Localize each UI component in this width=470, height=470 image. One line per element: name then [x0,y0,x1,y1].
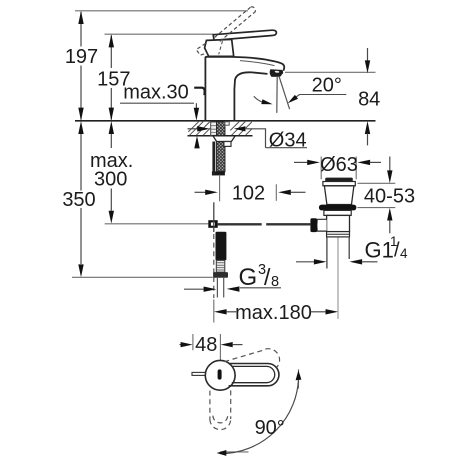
top view: faucet body circle [205,360,235,390]
pop-up rod vertical middle segment [213,202,215,232]
max.180 left arrow [214,309,227,314]
water stream 20 degree line [279,76,290,109]
faucet lever body / cartridge cap [205,39,234,56]
faucet body and spout outline [205,57,284,121]
svg-text:4: 4 [400,246,408,261]
counter section hatching right [230,122,252,136]
svg-text:84: 84 [358,88,380,110]
max.180 left extension line (faucet axis) [213,300,215,323]
dimension diameter 63 [294,161,308,163]
supply pipe below nut [217,278,223,298]
flexible supply hose [216,232,227,261]
dimension 350 [80,134,82,265]
mounting washer under counter [211,122,217,135]
drain body joint ring [327,232,350,237]
pop-up actuator rod (to drain) [218,223,311,225]
dimension max.30 arrows (counter thickness) [195,103,197,108]
drain flange body [324,186,354,205]
svg-text:Ø34: Ø34 [269,129,307,151]
top view: pop-up rod stub [192,372,208,375]
drain plug cap [325,178,353,182]
pop-up actuator rod horizontal (thin extension to max.300) [105,223,209,225]
top view: lever slot [218,369,222,379]
reference line: closed lever height [105,33,214,35]
90 degree arc ticks [298,369,300,388]
dimension max.300 [110,134,112,211]
top view: spout projection phantom (dashed) [210,390,231,429]
dimension 197 [80,12,82,120]
svg-text:48: 48 [195,334,217,356]
counter section hatching left [188,122,210,136]
raised lever (dashed phantom) [196,7,255,55]
drain collar under seal [324,210,351,215]
dimension 102 extension line at spout reach [275,184,277,201]
reference line: hose end (350 bottom) [72,276,213,278]
svg-text:90°: 90° [255,417,285,439]
pop-up rod upper segment [212,142,215,176]
pop-up rod joint [208,220,217,228]
top view: lever handle outer outline [229,364,279,386]
mounting nut [213,136,235,142]
pop-up rod guide box [224,142,231,147]
aerator at spout tip [270,69,283,77]
svg-text:300: 300 [94,168,127,190]
svg-text:102: 102 [232,183,265,205]
svg-text:350: 350 [62,189,95,211]
dimension 40-53 [389,157,391,171]
G3/8 left arrow [184,288,204,290]
threaded mounting shank [217,122,225,172]
svg-text:20°: 20° [312,75,342,97]
drain centerline [337,238,339,320]
svg-text:/: / [264,264,271,290]
reference line: raised lever max height [75,10,248,12]
shank end cap [212,171,225,175]
dimension diameter 34 with stepped leader [188,128,199,130]
top view: dimension 48 extension lines [193,334,221,364]
counter top line [75,120,376,122]
reference line: spout outlet height [285,71,376,73]
svg-text:40-53: 40-53 [364,186,415,208]
top view: dimension 48 [180,344,182,346]
spout top inner line [240,61,275,66]
dimension 40-53 reference lines [358,183,396,207]
svg-text:G: G [239,264,258,291]
90 degree swivel arc [220,375,298,453]
arc arrowhead top [296,370,302,380]
drain tailpipe walls [326,237,328,269]
drain rod ball housing [317,219,327,231]
arc arrowhead bottom [217,450,227,456]
dimension 102 [195,191,206,193]
max.180 right arrow [326,309,339,314]
drain flange lip [323,182,355,186]
G3/8 underline leader with arrow [240,287,281,289]
shank top step [225,122,229,125]
drain valve body [327,215,350,231]
counter bottom line [188,135,253,137]
svg-text:max.30: max.30 [123,82,189,104]
svg-text:Ø63: Ø63 [320,154,358,176]
water stream vertical reference [276,76,278,113]
drain rod knob [310,218,317,232]
hidden cartridge line (dashed) [219,41,223,54]
top view: lever rotated phantom (dashed) [224,349,279,367]
dimension diameter 63 extension lines [321,157,356,180]
svg-text:197: 197 [65,46,98,68]
svg-text:max.180: max.180 [235,302,312,324]
drain rubber seal ring [319,205,357,211]
hose threaded end G3/8 [216,260,225,272]
dimension 157 [110,35,112,119]
G1 1/4 dimension arrows [296,261,314,263]
dimension 102 extension line at faucet axis [219,175,221,202]
dimension 84 [367,48,369,61]
hose nut [213,272,228,278]
top view: lever handle inner outline [232,366,275,382]
faucet lever (closed position) [213,30,276,40]
pop-up rod vertical dashed segment [213,234,215,298]
